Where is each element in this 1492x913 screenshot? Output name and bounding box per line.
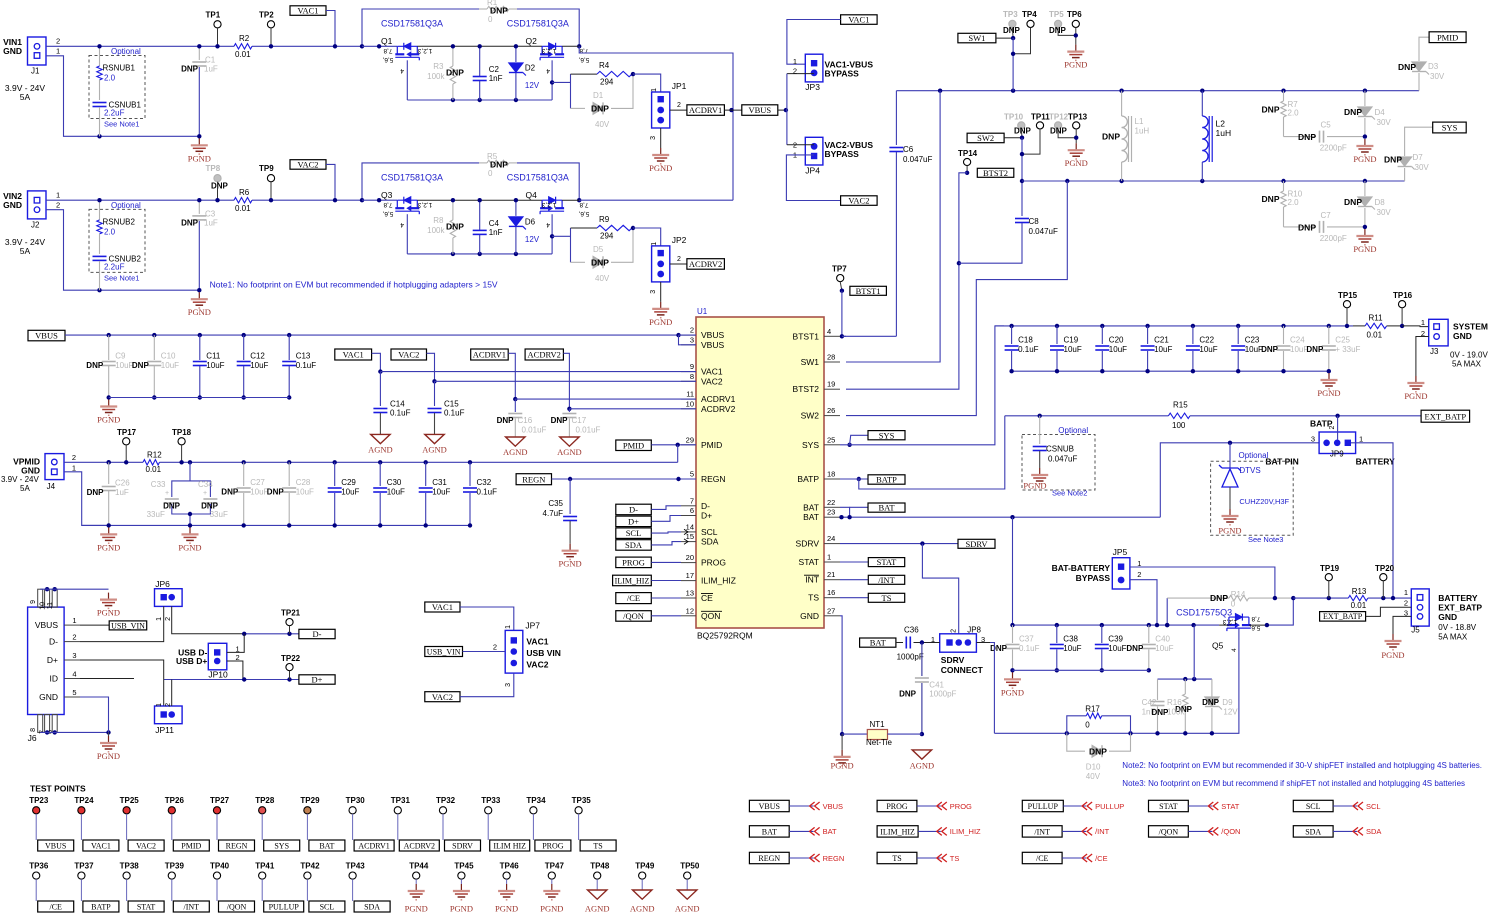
svg-text:/INT: /INT [184, 902, 200, 911]
jumper JP8 horizontal [940, 634, 977, 652]
svg-text:ACDRV2: ACDRV2 [404, 841, 435, 850]
svg-text:16: 16 [827, 588, 835, 597]
svg-text:BAT: BAT [319, 841, 334, 850]
svg-text:DNP: DNP [1306, 345, 1324, 354]
svg-text:5,6,: 5,6, [1249, 624, 1260, 631]
pin 8 VAC2 [681, 380, 696, 382]
svg-text:USB D+: USB D+ [176, 656, 207, 666]
svg-text:TP14: TP14 [958, 149, 978, 158]
svg-text:27: 27 [827, 606, 835, 615]
pin 21 INT [824, 579, 840, 581]
svg-text:1: 1 [505, 625, 512, 629]
pin 18 BATP [824, 478, 840, 480]
svg-text:ACDRV1: ACDRV1 [689, 105, 722, 115]
net label VAC2 (JP7) [425, 692, 460, 702]
svg-text:Q4: Q4 [526, 190, 538, 200]
net label D- [616, 504, 652, 515]
svg-text:1,2,3: 1,2,3 [417, 47, 432, 54]
net label VAC1 [83, 840, 119, 851]
testpoint TP22 [286, 664, 293, 671]
wire JP5 pin1 [1130, 567, 1275, 598]
svg-text:1: 1 [827, 553, 831, 562]
svg-text:2200pF: 2200pF [1320, 144, 1347, 153]
testpoint TP9 [267, 175, 274, 182]
testpoint TP4 [1027, 20, 1034, 27]
svg-text:DNP: DNP [87, 488, 105, 497]
svg-text:DNP: DNP [551, 416, 569, 425]
svg-text:0.1uF: 0.1uF [296, 361, 317, 370]
net label REGN [516, 474, 551, 485]
testpoint TP30 [349, 807, 356, 814]
flag BAT [810, 827, 820, 835]
svg-text:Note1: No footprint on EVM but: Note1: No footprint on EVM but recommend… [210, 280, 498, 290]
pin 28 SW1 [824, 361, 840, 363]
svg-text:DNP: DNP [1102, 132, 1120, 142]
svg-text:5,6,: 5,6, [382, 210, 393, 217]
svg-text:D+: D+ [47, 655, 58, 665]
net label ILIM HIZ [490, 840, 530, 851]
ground PGND [1364, 229, 1366, 236]
svg-text:40V: 40V [595, 274, 610, 283]
ground PGND J6 top [108, 593, 110, 600]
svg-text:DNP: DNP [1398, 62, 1416, 72]
testpoint TP13 [1073, 122, 1080, 129]
svg-text:Note3: No footprint on EVM but: Note3: No footprint on EVM but recommend… [1122, 779, 1465, 788]
wire cap bank top rail [995, 325, 1353, 327]
svg-text:8: 8 [690, 372, 694, 381]
svg-text:C13: C13 [296, 352, 311, 361]
svg-text:J1: J1 [31, 67, 40, 76]
svg-text:D7: D7 [1413, 153, 1424, 162]
svg-text:PGND: PGND [97, 608, 120, 618]
ground PGND [1364, 139, 1366, 146]
svg-text:PGND: PGND [1001, 687, 1024, 697]
svg-text:D+: D+ [312, 675, 323, 685]
capacitor CSNUB optional [1022, 435, 1095, 491]
net label REGN [219, 840, 255, 851]
wire PMID net [651, 444, 696, 446]
capacitor C29 [333, 460, 337, 464]
svg-text:TS: TS [808, 593, 819, 603]
svg-text:DNP: DNP [1262, 105, 1280, 115]
svg-text:22: 22 [827, 498, 835, 507]
svg-text:D+: D+ [628, 516, 639, 526]
svg-text:SCL: SCL [626, 528, 642, 538]
wire Q5 source to R14 [1267, 598, 1293, 625]
svg-text:C4: C4 [489, 219, 500, 228]
ground PGND [108, 527, 110, 534]
capacitor C7 DNP [1284, 226, 1317, 228]
svg-text:SW1: SW1 [968, 33, 985, 43]
svg-text:0: 0 [488, 15, 493, 24]
svg-text:3: 3 [690, 335, 694, 344]
svg-text:VBUS: VBUS [823, 802, 843, 811]
resistor R5 DNP bypass [362, 163, 479, 200]
svg-text:DNP: DNP [899, 690, 917, 699]
svg-text:DNP: DNP [990, 644, 1008, 653]
capacitor C20 [1100, 324, 1104, 328]
svg-text:C28: C28 [296, 478, 311, 487]
svg-text:10uF: 10uF [1064, 345, 1082, 354]
wire JP3 pin2 to VBUS node [787, 73, 814, 75]
svg-text:1: 1 [56, 190, 60, 199]
net label /CE flag [1022, 852, 1062, 863]
svg-text:11: 11 [47, 602, 54, 609]
svg-text:GND: GND [21, 466, 40, 476]
svg-text:/INT: /INT [1034, 827, 1050, 836]
svg-text:C9: C9 [115, 352, 126, 361]
svg-text:7,8: 7,8 [1251, 615, 1260, 622]
svg-text:VBUS: VBUS [701, 330, 724, 340]
svg-text:33uF: 33uF [147, 510, 165, 519]
svg-text:EXT_BATP: EXT_BATP [1425, 411, 1467, 421]
svg-text:2: 2 [56, 200, 60, 209]
wire D+ line [164, 679, 299, 681]
net label BATP [83, 901, 119, 912]
svg-text:13: 13 [686, 589, 694, 598]
svg-text:1nF: 1nF [489, 228, 503, 237]
net label TS [840, 597, 868, 599]
svg-text:VBUS: VBUS [748, 105, 771, 115]
wire JP9 pin1 to battery [1351, 443, 1393, 598]
net label SW1 [958, 33, 996, 43]
svg-text:PGND: PGND [97, 751, 120, 761]
net label EXT_BATP (J5) [1320, 612, 1366, 622]
svg-text:2: 2 [1329, 426, 1336, 430]
svg-text:5: 5 [72, 688, 76, 697]
net label PMID [173, 840, 209, 851]
svg-text:10uF: 10uF [1199, 345, 1217, 354]
capacitor C2 [479, 46, 481, 76]
net label VAC1 [290, 6, 326, 16]
svg-text:/INT: /INT [1095, 827, 1110, 836]
svg-text:C21: C21 [1154, 336, 1169, 345]
svg-text:PGND: PGND [1404, 391, 1427, 401]
svg-text:Q5: Q5 [1212, 641, 1224, 651]
ground PGND [660, 302, 662, 309]
svg-text:10uF: 10uF [1063, 644, 1081, 653]
svg-text:Optional: Optional [1239, 451, 1269, 460]
net label /INT [840, 579, 868, 581]
svg-text:D3: D3 [1428, 62, 1439, 71]
wire ACDRV2 net [563, 353, 569, 409]
svg-text:3: 3 [650, 136, 657, 140]
svg-text:C33: C33 [151, 480, 166, 489]
svg-text:See Note2: See Note2 [1052, 489, 1087, 498]
net label ACDRV2 [525, 349, 563, 360]
connector J2 VIN2 [28, 191, 47, 219]
svg-text:2: 2 [165, 617, 172, 621]
svg-text:DNP: DNP [86, 361, 104, 370]
flag SDA [1353, 827, 1363, 835]
diode D4 DNP 30V [1364, 91, 1366, 106]
svg-text:DNP: DNP [1298, 223, 1316, 233]
diode DTVS optional [1211, 461, 1294, 535]
svg-text:D6: D6 [525, 217, 536, 226]
wire ACDRV1 net [508, 353, 515, 399]
svg-text:TP40: TP40 [210, 862, 230, 871]
svg-text:SYS: SYS [879, 430, 895, 440]
svg-text:2: 2 [690, 326, 694, 335]
capacitor C6 [895, 91, 897, 145]
testpoint TP11 [1036, 122, 1043, 129]
ground PGND TP47 [551, 884, 553, 891]
svg-text:C20: C20 [1109, 336, 1124, 345]
J6 shield pins top [38, 589, 43, 607]
svg-text:DNP: DNP [1050, 127, 1068, 136]
svg-text:0.1uF: 0.1uF [1019, 644, 1040, 653]
wire R14 line to R13 [1293, 597, 1348, 599]
svg-text:C29: C29 [341, 478, 356, 487]
wire J4 pin1 down [64, 472, 109, 526]
ground PGND TP45 [460, 884, 462, 891]
svg-text:2.0: 2.0 [1288, 198, 1300, 207]
svg-text:0.047uF: 0.047uF [1029, 227, 1058, 236]
svg-text:TP22: TP22 [281, 654, 301, 663]
svg-text:DNP: DNP [591, 104, 609, 114]
wire BATP net [857, 477, 861, 481]
capacitor C19 [1055, 324, 1059, 328]
svg-text:10uF: 10uF [432, 488, 450, 497]
resistor R12 [143, 460, 160, 465]
svg-text:20: 20 [686, 553, 694, 562]
svg-text:PMID: PMID [1437, 32, 1458, 42]
svg-text:BAT: BAT [803, 512, 819, 522]
svg-text:SDRV: SDRV [796, 539, 820, 549]
inductor L2 1uH [1201, 91, 1203, 116]
svg-text:2200pF: 2200pF [1320, 234, 1347, 243]
svg-text:10uF: 10uF [206, 361, 224, 370]
svg-text:TP27: TP27 [210, 796, 230, 805]
capacitor C10 DNP [152, 333, 156, 337]
svg-text:VAC2: VAC2 [136, 841, 156, 850]
wire J6 bottom shield [40, 731, 108, 733]
pin 22 BAT [824, 506, 840, 508]
svg-text:VAC1: VAC1 [848, 15, 869, 25]
svg-text:C25: C25 [1335, 336, 1350, 345]
svg-text:PROG: PROG [622, 557, 645, 567]
wire BTST2 net to pin 19 [846, 173, 967, 389]
svg-text:REGN: REGN [823, 854, 845, 863]
svg-text:PGND: PGND [97, 542, 120, 552]
jumper JP9 horizontal [1319, 432, 1356, 454]
pin 16 TS [824, 597, 840, 599]
svg-text:Note2: No footprint on EVM but: Note2: No footprint on EVM but recommend… [1122, 761, 1482, 770]
svg-text:DNP: DNP [211, 182, 229, 191]
svg-text:TP12: TP12 [1049, 113, 1069, 122]
pin 10 ACDRV2 [681, 408, 696, 410]
svg-text:TS: TS [882, 593, 892, 603]
svg-text:TP33: TP33 [481, 796, 501, 805]
svg-text:2: 2 [1404, 599, 1408, 608]
svg-text:SDA: SDA [364, 902, 380, 911]
testpoint TP37 [78, 872, 85, 879]
svg-text:29: 29 [686, 435, 694, 444]
wire VBUS jog from Q2 to vertical [562, 45, 579, 47]
net label VAC2 [128, 840, 164, 851]
svg-text:4: 4 [400, 67, 404, 74]
svg-text:TP11: TP11 [1031, 113, 1050, 122]
net label VBUS [38, 840, 74, 851]
svg-text:/CE: /CE [1036, 854, 1049, 863]
testpoint TP1 [214, 21, 221, 28]
testpoint TP29 [304, 807, 311, 814]
wire Q5 gate block top rail [1158, 678, 1212, 680]
svg-text:5A: 5A [20, 92, 31, 102]
svg-text:QON: QON [701, 611, 720, 621]
capacitor C5 DNP [1284, 136, 1317, 138]
svg-text:PGND: PGND [1218, 525, 1241, 535]
svg-text:USB VIN: USB VIN [526, 648, 560, 658]
svg-text:SDA: SDA [1366, 827, 1381, 836]
svg-text:7,8: 7,8 [383, 201, 392, 208]
ground AGND [425, 434, 444, 443]
net label REGN flag [749, 852, 789, 863]
svg-text:TP36: TP36 [29, 862, 49, 871]
net label ACDRV2 [399, 840, 439, 851]
svg-text:19: 19 [827, 380, 835, 389]
svg-text:PGND: PGND [540, 904, 563, 913]
svg-text:JP9: JP9 [1330, 449, 1344, 458]
svg-text:C14: C14 [390, 400, 405, 409]
svg-text:1: 1 [72, 616, 76, 625]
testpoint TP8 [214, 175, 221, 182]
svg-text:DNP: DNP [1344, 107, 1362, 117]
capacitor C25 DNP [1327, 324, 1331, 328]
svg-text:2: 2 [677, 102, 681, 109]
svg-text:BYPASS: BYPASS [825, 149, 860, 159]
svg-text:BAT: BAT [870, 638, 887, 648]
svg-text:ILIM_HIZ: ILIM_HIZ [615, 576, 650, 585]
svg-text:+ 33uF: + 33uF [1335, 345, 1360, 354]
flag SCL [1353, 802, 1363, 810]
svg-text:2.0: 2.0 [104, 74, 116, 83]
svg-text:10uF: 10uF [250, 488, 268, 497]
svg-text:4: 4 [827, 327, 831, 336]
testpoint TP23 [33, 807, 40, 814]
svg-text:BYPASS: BYPASS [825, 69, 860, 79]
testpoint TP33 [485, 807, 492, 814]
svg-text:D4: D4 [1375, 108, 1386, 117]
svg-text:PGND: PGND [1064, 60, 1087, 70]
svg-text:JP2: JP2 [672, 235, 687, 245]
svg-text:C40: C40 [1155, 635, 1170, 644]
svg-text:D+: D+ [701, 511, 712, 521]
wire JP4 pin2 [787, 144, 814, 146]
capacitor C35 [569, 479, 571, 514]
svg-text:VBUS: VBUS [701, 340, 724, 350]
testpoint TP41 [259, 872, 266, 879]
svg-text:SCL: SCL [1366, 802, 1381, 811]
wire J6 D- to JP6 pin1 [80, 606, 164, 641]
svg-text:5A MAX: 5A MAX [1452, 360, 1482, 369]
net label /CE [616, 593, 652, 604]
pin 1 STAT [824, 561, 840, 563]
svg-text:C23: C23 [1245, 336, 1260, 345]
resistor R11 [1353, 325, 1365, 327]
net label ACDRV1 [354, 840, 394, 851]
svg-text:10uF: 10uF [1154, 345, 1172, 354]
net label SCL [309, 901, 345, 912]
svg-text:DNP: DNP [1210, 593, 1228, 603]
svg-text:PGND: PGND [1023, 481, 1046, 491]
capacitor C12 [242, 333, 246, 337]
svg-text:3.9V - 24V: 3.9V - 24V [1, 475, 39, 484]
svg-text:DNP: DNP [1344, 197, 1362, 207]
svg-text:CONNECT: CONNECT [941, 665, 984, 675]
net label /INT [173, 901, 209, 912]
svg-text:DNP: DNP [221, 488, 239, 497]
svg-text:CSD17575Q3: CSD17575Q3 [1176, 608, 1232, 618]
svg-text:C16: C16 [518, 416, 533, 425]
wire J5 pin3 to gnd [1393, 616, 1411, 634]
svg-text:0.047uF: 0.047uF [1048, 455, 1077, 464]
svg-text:C22: C22 [1199, 336, 1214, 345]
svg-text:AGND: AGND [422, 444, 447, 454]
svg-text:EXT_BATP: EXT_BATP [1438, 603, 1482, 613]
svg-text:C30: C30 [387, 478, 402, 487]
svg-text:7,8: 7,8 [383, 47, 392, 54]
pin 19 BTST2 [824, 388, 840, 390]
wire JP pin3 to ground [660, 282, 662, 302]
flag /QON [1208, 827, 1218, 835]
svg-text:3: 3 [650, 290, 657, 294]
svg-text:DNP: DNP [267, 488, 285, 497]
svg-text:26: 26 [827, 406, 835, 415]
svg-text:C36: C36 [904, 626, 919, 635]
wire VPMID gnd rail [82, 524, 470, 526]
svg-text:0: 0 [488, 169, 493, 178]
resistor R10 DNP [1283, 181, 1285, 191]
capacitor C38 [1056, 625, 1058, 643]
svg-text:TP37: TP37 [74, 862, 94, 871]
svg-text:PMID: PMID [701, 440, 722, 450]
svg-text:100k: 100k [427, 226, 445, 235]
svg-text:/INT: /INT [878, 575, 895, 585]
net label D- (usb) [299, 629, 335, 638]
wire JP10 pin1 up [227, 634, 244, 653]
svg-text:7: 7 [690, 496, 694, 505]
svg-text:TP17: TP17 [117, 428, 137, 437]
svg-text:5A: 5A [20, 246, 31, 256]
wire BAT to JP9 pin3 [1160, 443, 1319, 517]
svg-text:6: 6 [690, 506, 694, 515]
svg-text:ACDRV1: ACDRV1 [701, 394, 736, 404]
capacitor C18 [1009, 324, 1013, 328]
resistor R3 DNP [452, 46, 454, 66]
svg-text:DNP: DNP [163, 502, 181, 511]
svg-text:USB_VIN: USB_VIN [111, 621, 145, 630]
wire main input rail [46, 45, 234, 47]
svg-text:D-: D- [701, 501, 710, 511]
svg-text:BATP: BATP [876, 475, 897, 485]
net label USB_VIN (JP7) [425, 647, 463, 657]
svg-text:15: 15 [686, 532, 694, 541]
wire VBUS cap gnd rail [109, 397, 290, 399]
wire Q5 gate line left end [976, 642, 990, 644]
svg-text:BAT-BATTERY: BAT-BATTERY [1052, 563, 1111, 573]
wire EXT_BATP tap to JP9 pin2 [1337, 416, 1339, 440]
svg-text:REGN: REGN [758, 854, 780, 863]
wire JP5 pin2 [1130, 580, 1157, 625]
pin 17 ILIM_HIZ [681, 580, 696, 582]
testpoint TP6 [1072, 20, 1079, 27]
svg-text:JP3: JP3 [805, 82, 820, 92]
svg-text:12V: 12V [525, 81, 540, 90]
wire USB_VIN to JP7 pin2 [463, 651, 506, 653]
svg-text:SCL: SCL [1306, 802, 1321, 811]
flag TS [937, 854, 947, 862]
